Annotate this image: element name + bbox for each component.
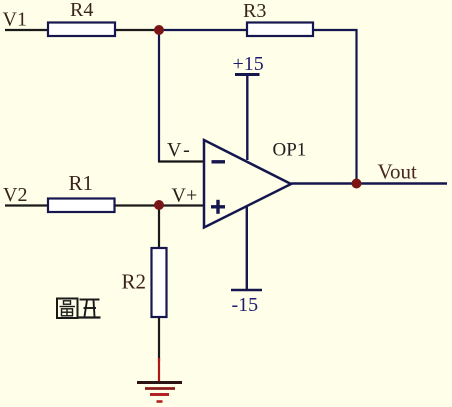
svg-text:-15: -15 (232, 294, 259, 316)
svg-text:R4: R4 (70, 0, 93, 21)
svg-text:Vout: Vout (378, 160, 417, 184)
svg-text:V-: V- (167, 139, 190, 161)
svg-text:OP1: OP1 (273, 140, 307, 161)
svg-text:+15: +15 (233, 53, 264, 75)
svg-text:V+: V+ (172, 185, 198, 207)
svg-text:R2: R2 (122, 270, 147, 294)
svg-text:R1: R1 (69, 171, 94, 195)
svg-text:R3: R3 (243, 0, 266, 22)
svg-text:V1: V1 (3, 9, 27, 31)
svg-text:V2: V2 (3, 184, 27, 206)
